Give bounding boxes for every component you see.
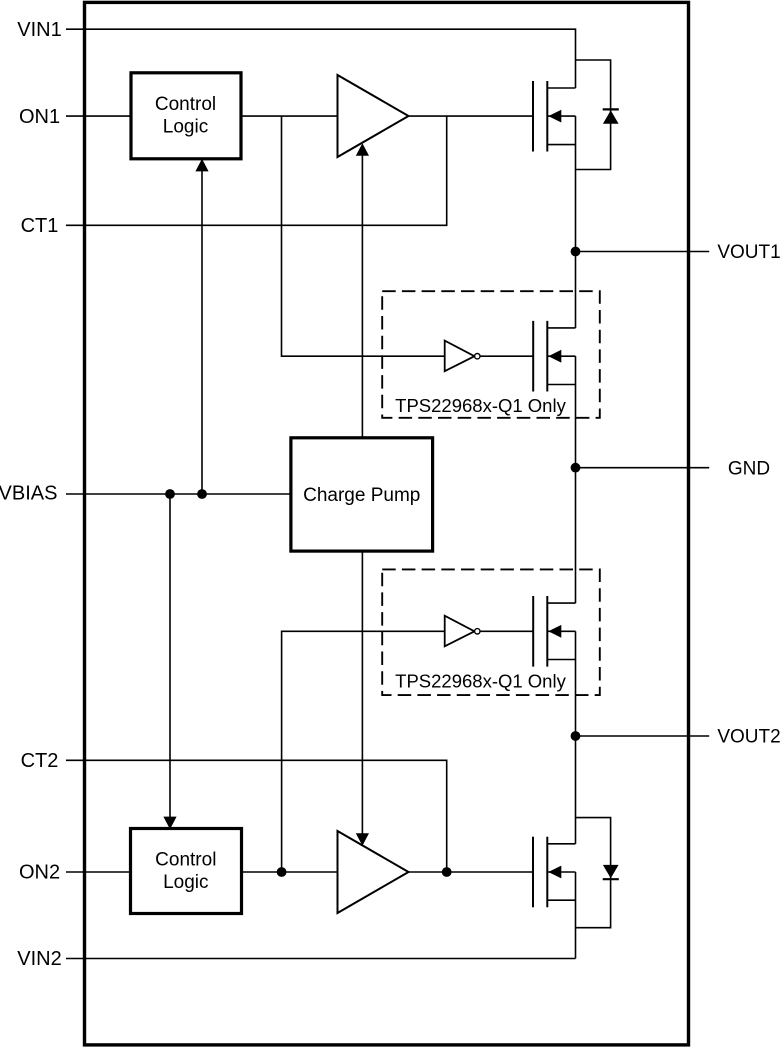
svg-text:CT2: CT2 [21, 750, 59, 772]
pulldown mosfet Q3 gate line [532, 321, 534, 392]
svg-text:CT1: CT1 [21, 215, 59, 237]
inverter X1 bubble [475, 354, 480, 359]
wire VOUT1 rail to pulldown Q3 drain [575, 252, 577, 328]
wire CT1 from pin up to A1 output net [66, 116, 447, 225]
svg-text:TPS22968x-Q1 Only: TPS22968x-Q1 Only [395, 395, 566, 416]
mosfet Q4 source stub [547, 659, 575, 661]
arrow into buffer A2 [356, 833, 369, 846]
mosfet Q4 drain stub [547, 602, 575, 604]
svg-text:VOUT1: VOUT1 [717, 242, 780, 263]
wire U1 output to buffer A1 input [241, 115, 338, 117]
body diode D1 triangle [603, 110, 619, 123]
svg-text:Control: Control [155, 94, 216, 115]
wire charge pump to buffer A1 [361, 152, 363, 438]
mosfet Q2 source stub [547, 899, 575, 901]
control logic U1 [131, 73, 241, 159]
svg-text:ON2: ON2 [19, 862, 60, 884]
svg-text:Control: Control [155, 850, 216, 871]
mosfet Q1 drain stub [547, 87, 575, 89]
wire Q3 source rail to GND node [575, 356, 577, 468]
svg-text:VIN1: VIN1 [17, 19, 61, 41]
svg-text:Charge Pump: Charge Pump [303, 485, 420, 506]
mosfet Q2 drain stub [547, 843, 575, 845]
svg-text:GND: GND [728, 458, 770, 479]
node VOUT2 junction dot [571, 731, 581, 741]
mosfet Q2 body arrow [548, 866, 561, 879]
pulldown mosfet Q4 channel line [546, 596, 548, 667]
mosfet Q3 body stub [547, 355, 575, 357]
mosfet Q3 source stub [547, 384, 575, 386]
body diode D1 cathode bar [603, 108, 619, 110]
pulldown mosfet Q4 gate line [532, 596, 534, 667]
inverter X1 [445, 341, 475, 372]
arrow into U1 [195, 159, 208, 172]
wire GND rail to pulldown Q4 drain [575, 468, 577, 603]
wire Q2 source rail to VIN2 [575, 872, 577, 959]
wire buffer A2 output to Q2 gate [409, 871, 534, 873]
wire ON2 from pin to control logic U2 [66, 871, 130, 873]
wire inverter X1 input branch from ON1 logic output [282, 116, 445, 356]
chip outline border [85, 2, 689, 1045]
buffer A2 [338, 831, 409, 913]
mosfet Q3 drain stub [547, 327, 575, 329]
inverter X2 bubble [475, 629, 480, 634]
svg-text:ON1: ON1 [19, 106, 60, 128]
pulldown mosfet Q3 channel line [546, 321, 548, 392]
junction dot CT2 net [442, 867, 452, 877]
body diode D2 triangle [603, 865, 619, 878]
mosfet Q3 body arrow [548, 350, 561, 363]
wire VIN1 from pin to FET Q1 drain rail [66, 29, 576, 88]
arrow into U2 [163, 817, 176, 830]
wire U2 output to buffer A2 input [242, 871, 338, 873]
body diode D2 cathode bar [603, 878, 619, 880]
node GND junction dot [571, 463, 581, 473]
svg-text:VOUT2: VOUT2 [717, 727, 780, 748]
wire body diode D2 branch [576, 818, 611, 928]
wire VBIAS up to control logic U1 [201, 170, 203, 494]
wire CT2 from pin down to A2 output net [66, 760, 447, 872]
svg-text:VBIAS: VBIAS [0, 482, 57, 504]
wire X2 output to Q4 gate [480, 630, 533, 632]
mosfet Q1 body stub [547, 115, 575, 117]
charge pump box [291, 438, 433, 551]
wire body diode D1 branch top [576, 60, 611, 170]
node VOUT1 junction dot [571, 247, 581, 257]
wire inverter X2 input branch from ON2 logic output [282, 631, 445, 872]
wire charge pump to buffer A2 [361, 551, 363, 836]
dashed option box 1 [382, 291, 600, 418]
arrow into buffer A1 [356, 143, 369, 156]
wire buffer A1 output to Q1 gate [409, 115, 534, 117]
junction dot VBIAS branch 2 [197, 489, 207, 499]
mosfet Q2 channel line [546, 837, 548, 908]
svg-text:Logic: Logic [163, 117, 208, 138]
wire X1 output to Q3 gate [480, 355, 533, 357]
mosfet Q1 gate line [532, 81, 534, 152]
svg-text:Logic: Logic [163, 872, 208, 893]
mosfet Q4 body stub [547, 630, 575, 632]
wire VBIAS down to control logic U2 [169, 494, 171, 818]
mosfet Q2 gate line [532, 837, 534, 908]
buffer A1 [338, 75, 409, 157]
junction dot VBIAS branch 1 [165, 489, 175, 499]
mosfet Q1 body arrow [548, 110, 561, 123]
svg-text:VIN2: VIN2 [17, 948, 61, 970]
wire VBIAS to charge pump [66, 493, 291, 495]
junction dot X2 branch [277, 867, 287, 877]
inverter X2 [445, 616, 475, 647]
wire Q4 source rail to VOUT2 node [575, 631, 577, 736]
mosfet Q4 body arrow [548, 625, 561, 638]
wire VOUT2 rail to Q2 drain [575, 736, 577, 844]
mosfet Q1 source stub [547, 144, 575, 146]
control logic U2 [131, 829, 242, 914]
wire VOUT2 to pin [576, 735, 710, 737]
mosfet Q2 body stub [547, 871, 575, 873]
svg-text:TPS22968x-Q1 Only: TPS22968x-Q1 Only [395, 671, 566, 692]
wire GND to pin [576, 467, 710, 469]
mosfet Q1 channel line [546, 81, 548, 152]
wire VIN2 from pin to Q2 source rail [66, 958, 576, 960]
wire Q1 source rail to VOUT1 node [575, 116, 577, 251]
wire ON1 from pin to control logic U1 [66, 115, 130, 117]
wire VOUT1 to pin [576, 251, 710, 253]
dashed option box 2 [382, 569, 600, 695]
